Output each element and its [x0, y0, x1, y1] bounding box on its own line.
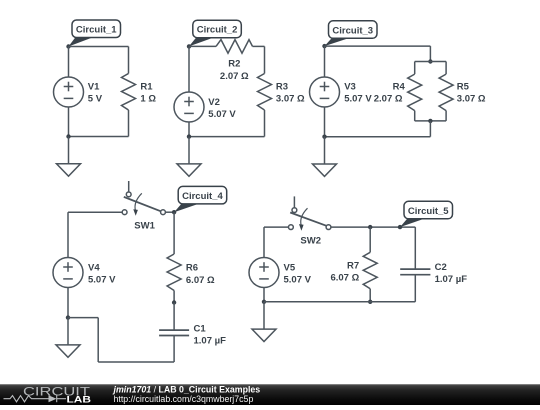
wire (V4 top lead)	[67, 212, 69, 257]
junction (parallel bottom)	[428, 119, 432, 123]
svg-text:R2: R2	[228, 59, 240, 70]
wire (C2 bottom rail)	[189, 136, 265, 138]
svg-text:6.07 Ω: 6.07 Ω	[330, 273, 359, 284]
wire (C4 left riser)	[97, 318, 99, 362]
wire (to bottom rail)	[429, 121, 431, 137]
net label Circuit_1	[69, 20, 121, 47]
voltage source V4	[53, 258, 83, 288]
svg-text:R6: R6	[186, 262, 198, 273]
ground (circuit 1)	[57, 137, 81, 177]
svg-text:Circuit_3: Circuit_3	[332, 25, 373, 36]
wire (SW1 to V4 top rail)	[68, 211, 122, 213]
svg-text:Circuit_4: Circuit_4	[182, 191, 223, 202]
wire (C1 bottom rail)	[69, 136, 129, 138]
wire (R1 bottom lead)	[128, 110, 130, 137]
wire (V1 bottom lead)	[68, 107, 70, 137]
svg-text:LAB: LAB	[67, 395, 92, 405]
resistor R2	[216, 40, 253, 54]
ground (circuit 3)	[313, 137, 337, 177]
switch SW1	[124, 181, 161, 216]
junction (R7 top)	[368, 225, 372, 229]
switch SW2 terminal (right)	[326, 225, 331, 230]
svg-text:V1: V1	[88, 82, 100, 93]
voltage source V3	[310, 77, 340, 107]
svg-text:C1: C1	[194, 323, 207, 334]
svg-text:1.07 µF: 1.07 µF	[194, 336, 227, 347]
wire (parallel bottom stub)	[415, 120, 446, 122]
wire (C1 top rail)	[69, 46, 129, 48]
wire (C3 bottom rail)	[325, 136, 431, 138]
wire (V1 top lead)	[68, 47, 70, 78]
net label Circuit_4	[174, 186, 227, 212]
svg-text:R4: R4	[393, 82, 406, 93]
wire (R3 top lead)	[264, 46, 266, 73]
wire (V3 top lead)	[324, 46, 326, 77]
svg-text:Circuit_5: Circuit_5	[408, 206, 449, 217]
svg-text:SW2: SW2	[300, 235, 321, 246]
wire (V2 top lead)	[188, 46, 190, 92]
wire (R7 top lead)	[369, 227, 371, 252]
svg-text:R5: R5	[457, 82, 470, 93]
resistor R3	[258, 74, 272, 111]
node Circuit_5 (junction)	[398, 225, 402, 229]
node Circuit_4 (junction)	[172, 210, 176, 214]
ground (circuit 5)	[252, 302, 276, 342]
wire (C5 top rail)	[331, 226, 415, 228]
svg-text:5.07 V: 5.07 V	[88, 275, 116, 286]
svg-text:http://circuitlab.com/c3qmwber: http://circuitlab.com/c3qmwberj7c5p	[114, 394, 254, 404]
wire (R7 bottom lead)	[369, 289, 371, 302]
resistor R1	[122, 74, 136, 111]
svg-text:3.07 Ω: 3.07 Ω	[276, 94, 305, 105]
svg-text:V3: V3	[344, 82, 356, 93]
resistor R5	[439, 74, 453, 111]
switch SW2 terminal (left)	[289, 225, 294, 230]
wire (V3 bottom lead)	[324, 107, 326, 137]
svg-text:5.07 V: 5.07 V	[344, 94, 372, 105]
svg-text:3.07 Ω: 3.07 Ω	[457, 94, 486, 105]
junction (R6-C1 node)	[172, 300, 176, 304]
resistor R7	[363, 252, 377, 288]
net label Circuit_5	[400, 201, 453, 227]
switch SW1 throw terminal (top)	[126, 192, 131, 197]
wire (V5 top lead)	[263, 227, 265, 257]
switch SW1 terminal (right)	[161, 210, 166, 215]
wire (R2 right lead)	[253, 45, 265, 47]
junction (C3 bottom node)	[322, 135, 326, 139]
svg-text:2.07 Ω: 2.07 Ω	[220, 71, 249, 82]
switch SW2	[290, 196, 326, 230]
wire (to V4 ground node)	[68, 317, 98, 319]
wire (R2 left lead)	[189, 45, 216, 47]
node Circuit_1 (junction)	[66, 44, 70, 48]
wire (V2 bottom lead)	[188, 122, 190, 137]
wire (R5 bottom lead)	[445, 111, 447, 121]
voltage source V5	[249, 258, 279, 288]
svg-text:1.07 µF: 1.07 µF	[435, 274, 468, 285]
svg-text:Circuit_1: Circuit_1	[76, 24, 117, 35]
capacitor C1	[159, 330, 189, 335]
wire (C4 bottom run)	[98, 361, 174, 363]
voltage source V1	[54, 77, 84, 107]
svg-text:5.07 V: 5.07 V	[284, 275, 312, 286]
wire (SW1 to node)	[165, 211, 174, 213]
wire (C1 bottom lead)	[173, 336, 175, 363]
resistor R4	[408, 74, 422, 111]
svg-text:SW1: SW1	[134, 220, 155, 231]
svg-text:5.07 V: 5.07 V	[208, 109, 236, 120]
svg-text:R1: R1	[140, 82, 153, 93]
svg-text:C2: C2	[435, 262, 447, 273]
svg-text:1 Ω: 1 Ω	[140, 94, 156, 105]
svg-text:R3: R3	[276, 82, 288, 93]
wire (to parallel pair top)	[429, 46, 431, 61]
svg-text:2.07 Ω: 2.07 Ω	[374, 94, 403, 105]
svg-text:V2: V2	[208, 97, 220, 108]
footer bar	[0, 384, 540, 405]
resistor R6	[167, 254, 181, 291]
wire (R3 bottom lead)	[264, 110, 266, 137]
net label Circuit_2	[189, 20, 241, 46]
svg-text:V5: V5	[284, 263, 296, 274]
junction (parallel top)	[428, 59, 432, 63]
logo resistor-diode squiggle	[4, 395, 67, 402]
wire (V4 bottom lead)	[67, 288, 69, 318]
ground (circuit 2)	[177, 137, 201, 177]
wire (C1 top lead)	[173, 303, 175, 331]
net label Circuit_3	[325, 21, 378, 46]
node Circuit_3 (junction)	[322, 44, 326, 48]
wire (SW2 to V5 top rail)	[264, 226, 289, 228]
ground (circuit 4)	[56, 318, 80, 358]
junction (C1 bottom node)	[66, 134, 70, 138]
wire (R5 top lead)	[445, 62, 447, 75]
junction (C5 ground node)	[262, 300, 266, 304]
wire (V5 bottom lead)	[263, 288, 265, 302]
wire (R6 bottom lead)	[173, 291, 175, 303]
switch SW2 throw terminal (top)	[292, 208, 297, 213]
wire (C2 bottom lead)	[414, 275, 416, 302]
svg-text:jmin1701 / LAB 0_Circuit Examp: jmin1701 / LAB 0_Circuit Examples	[113, 385, 261, 395]
junction (C4 ground node)	[66, 315, 70, 319]
svg-text:R7: R7	[347, 261, 359, 272]
wire (C2 top lead)	[414, 227, 416, 269]
wire (C5 bottom rail)	[264, 301, 415, 303]
voltage source V2	[174, 92, 204, 122]
junction (R7 bottom)	[368, 300, 372, 304]
wire (R1 top lead)	[128, 47, 130, 74]
switch SW1 terminal (left)	[122, 210, 127, 215]
wire (R4 top lead)	[414, 62, 416, 75]
junction (C2 bottom node)	[187, 134, 191, 138]
wire (C3 top rail)	[325, 45, 431, 47]
svg-text:V4: V4	[88, 263, 100, 274]
svg-text:5 V: 5 V	[88, 94, 103, 105]
wire (R6 top lead)	[173, 212, 175, 254]
capacitor C2	[400, 269, 430, 275]
wire (R4 bottom lead)	[414, 111, 416, 121]
wire (parallel top stub)	[415, 61, 446, 63]
svg-text:Circuit_2: Circuit_2	[197, 25, 238, 36]
node Circuit_2 (junction)	[187, 44, 191, 48]
svg-text:6.07 Ω: 6.07 Ω	[186, 275, 215, 286]
